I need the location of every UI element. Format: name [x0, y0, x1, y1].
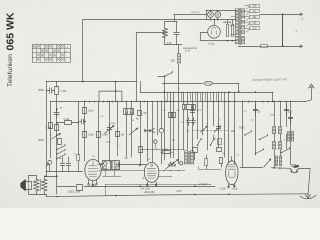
capacitor C11 block: [103, 161, 111, 170]
transformer T1 secondary: [236, 9, 239, 44]
svg-text:1M: 1M: [121, 133, 124, 136]
coil L6: [276, 156, 278, 166]
wire: [136, 32, 165, 34]
svg-text:Telefunken: Telefunken: [7, 54, 14, 87]
wire: [164, 101, 166, 160]
svg-text:W: W: [33, 47, 35, 49]
wire: [200, 40, 236, 42]
svg-text:2×AB2011: 2×AB2011: [190, 11, 201, 14]
switch S5: [255, 153, 256, 154]
wire comb: [167, 92, 169, 101]
wire: [126, 148, 128, 157]
wire: [109, 101, 111, 162]
variable capacitor CV2: [214, 126, 221, 132]
svg-text:+245 245V: +245 245V: [144, 192, 156, 194]
wire: [157, 101, 159, 126]
wire: [286, 101, 288, 126]
wire: [183, 92, 185, 104]
resistor R8: [83, 132, 87, 138]
choke L11: [178, 45, 180, 54]
jack J2: [48, 160, 52, 164]
mains arrow b: [299, 45, 303, 48]
resistor R4: [55, 125, 59, 131]
wire: [174, 15, 176, 22]
wire: [178, 92, 180, 164]
svg-text:5000: 5000: [196, 110, 202, 112]
wire: [240, 167, 263, 169]
wire: [183, 110, 185, 151]
capacitor C14: [205, 159, 208, 166]
wire: [238, 84, 240, 93]
resistor R3: [56, 82, 58, 88]
svg-text:≈ 0 250: ≈ 0 250: [218, 188, 226, 191]
wire: [122, 164, 146, 166]
jack J1: [159, 128, 163, 132]
rectifier tube V4: [208, 26, 221, 39]
resistor R1: [164, 21, 166, 28]
resistor R21: [163, 151, 171, 154]
svg-text:40mA: 40mA: [232, 188, 238, 191]
wire: [140, 82, 142, 93]
wire: [207, 92, 209, 150]
capacitor C1: [174, 21, 180, 45]
wire: [78, 101, 80, 154]
wire: [46, 194, 48, 196]
coil L5: [273, 142, 276, 150]
transformer T1 core: [239, 8, 241, 45]
wire bias: [84, 186, 215, 188]
wire: [290, 101, 292, 165]
transformer T1 primary taps: [242, 9, 245, 14]
switch S6: [281, 152, 282, 153]
capacitor C17: [216, 124, 220, 133]
svg-text:schwarz: schwarz: [199, 183, 208, 186]
svg-text:4,4≈ /350: 4,4≈ /350: [140, 187, 150, 190]
jack J4: [154, 140, 157, 143]
speaker field coil L8: [33, 179, 39, 191]
pickup jack bowtie: [144, 129, 150, 133]
trimmer arrow3: [129, 128, 138, 135]
wire: [28, 176, 30, 182]
svg-text:a. M.: a. M.: [185, 50, 191, 53]
junction circle: [180, 162, 183, 165]
resistor R15: [218, 139, 222, 145]
wire: [274, 150, 276, 168]
band switch table: [33, 45, 71, 63]
wire: [136, 33, 138, 101]
capacitor C15: [60, 157, 64, 171]
switch S3: [244, 134, 245, 135]
wire rail HT1: [46, 81, 137, 83]
wire: [242, 101, 244, 167]
choke L1: [204, 81, 213, 85]
wire: [46, 91, 48, 177]
resistor R6: [58, 139, 62, 145]
wire: [140, 101, 142, 164]
wire: [99, 170, 146, 172]
wire: [228, 92, 230, 162]
svg-text:1,25: 1,25: [167, 41, 173, 45]
wire: [165, 44, 182, 46]
wire: [268, 46, 299, 48]
potentiometer P1: [169, 162, 176, 167]
svg-text:065 WK: 065 WK: [5, 12, 17, 50]
connector arrowhead: [151, 128, 155, 133]
resistor R14: [193, 148, 198, 153]
svg-text:≈2,2μ: ≈2,2μ: [208, 42, 215, 46]
svg-text:5000: 5000: [38, 139, 44, 142]
capacitor C10: [284, 104, 289, 116]
trimmer arrow4: [264, 159, 271, 167]
tube V1 AL4: [85, 159, 101, 180]
IF transformer L2: [124, 109, 134, 115]
wire: [44, 176, 46, 179]
speaker LS: [21, 179, 26, 191]
capacitor C8: [190, 108, 195, 115]
capacitor C5: [54, 109, 59, 118]
resistor R13: [172, 113, 176, 118]
wire: [173, 92, 175, 158]
resistor R10: [116, 132, 120, 137]
svg-text:0,1M: 0,1M: [88, 110, 94, 113]
wire: [57, 186, 76, 188]
capacitor C13: [116, 162, 122, 166]
mains arrow a: [299, 13, 303, 16]
wire: [213, 135, 215, 139]
fuse F1: [261, 45, 268, 48]
resistor R7: [83, 108, 87, 114]
capacitor C7: [107, 124, 112, 133]
wire: [105, 184, 211, 186]
wire: [235, 10, 237, 20]
resistor R18: [49, 123, 53, 129]
wire: [174, 14, 206, 16]
coil L7b: [288, 132, 290, 142]
wire: [234, 92, 236, 165]
wire: [202, 92, 204, 135]
wire: [46, 171, 82, 173]
svg-text:150Ω 1,5W: 150Ω 1,5W: [68, 191, 81, 194]
resistor R20: [139, 147, 143, 153]
wire: [170, 92, 172, 158]
svg-text:k: k: [65, 60, 66, 62]
tube V3 ACH1: [226, 161, 238, 185]
tube V1 pins: [88, 184, 90, 186]
wire: [224, 92, 226, 157]
switch S1: [164, 76, 165, 77]
wire: [206, 10, 208, 20]
wire main bus: [50, 101, 305, 103]
tube V2 AF7: [144, 163, 158, 183]
wire: [255, 101, 257, 155]
output choke L9: [41, 179, 47, 191]
wire: [140, 149, 184, 151]
switch S4: [259, 139, 260, 140]
wire: [105, 169, 107, 176]
tube V3 cathode: [229, 171, 235, 178]
wire: [161, 101, 163, 128]
wire: [152, 101, 154, 162]
svg-text:−1,5V: −1,5V: [175, 190, 182, 193]
resistor R9: [97, 132, 101, 138]
IF transformer L3: [183, 105, 196, 110]
svg-text:1M: 1M: [172, 139, 175, 141]
wire: [260, 14, 300, 16]
svg-text:≈: ≈: [296, 29, 298, 33]
wire: [36, 191, 38, 194]
wire: [286, 134, 288, 149]
dial lamp E1: [208, 12, 214, 18]
svg-text:0,1M: 0,1M: [46, 126, 52, 129]
wire ground bus: [46, 194, 308, 197]
wire: [218, 92, 220, 148]
wire: [197, 92, 199, 139]
resistor R19: [217, 148, 222, 152]
svg-text:+: +: [228, 20, 230, 24]
capacitor C6: [80, 119, 86, 124]
svg-text:+: +: [223, 20, 225, 24]
tube V2 pins: [146, 184, 148, 186]
wire: [213, 83, 239, 85]
mains plug link: [282, 14, 284, 46]
arrow earth anchor: [305, 194, 310, 198]
wire: [115, 82, 117, 102]
arrow chassis up: [309, 84, 315, 88]
resistor R11: [138, 111, 142, 116]
capacitor C16: [66, 157, 70, 171]
svg-text:50: 50: [144, 111, 147, 115]
svg-text:0,1M: 0,1M: [163, 149, 168, 151]
wire: [56, 108, 58, 110]
wire bus to arrow: [305, 87, 311, 102]
wire: [117, 101, 119, 156]
wire: [299, 168, 311, 170]
trimmer capacitor C20: [187, 118, 191, 126]
switch S2: [56, 149, 57, 150]
svg-text:a-w: a-w: [65, 47, 69, 49]
resistor R12: [169, 113, 173, 118]
wire: [206, 10, 236, 12]
wire: [272, 92, 274, 101]
svg-text:5000: 5000: [239, 127, 245, 130]
capacitor C12 block: [112, 161, 120, 170]
jack J3 speaker sockets: [290, 169, 298, 173]
wire: [238, 46, 261, 48]
wire: [200, 32, 208, 34]
speaker sep: [40, 179, 42, 191]
resistor R5: [57, 122, 64, 124]
wire: [271, 167, 290, 170]
wire: [84, 101, 86, 161]
wire: [199, 169, 221, 171]
trimmer arrow: [52, 134, 61, 140]
capacitor C19 electrolytic: [77, 155, 80, 161]
wire: [164, 84, 166, 102]
wire: [46, 82, 48, 91]
wire: [126, 115, 128, 148]
wire: [274, 134, 276, 142]
wire coupling link: [99, 91, 122, 101]
resistor R17: [77, 185, 83, 191]
svg-text:0,3M: 0,3M: [88, 134, 94, 137]
wire: [98, 101, 100, 162]
capacitor C2 electrolytic: [227, 25, 229, 37]
svg-text:5000: 5000: [38, 89, 44, 92]
resistor R16: [220, 158, 223, 164]
svg-text:O O58: O O58: [88, 185, 96, 188]
wire: [308, 168, 310, 197]
svg-text:50Ω: 50Ω: [171, 60, 176, 63]
capacitor C3 electrolytic: [232, 25, 234, 37]
wire: [83, 19, 236, 21]
voltage selector taps: [245, 5, 250, 7]
wire: [231, 16, 235, 18]
capacitor C9: [253, 104, 258, 116]
svg-text:0,1M: 0,1M: [64, 118, 70, 121]
svg-text:5000: 5000: [111, 123, 117, 125]
wire: [213, 92, 215, 126]
svg-text:0,3M: 0,3M: [102, 134, 108, 137]
wire: [50, 101, 52, 157]
wire: [28, 189, 30, 194]
trimmer arrow2: [105, 126, 115, 134]
capacitor C18: [288, 113, 292, 123]
wire rail HT2: [162, 83, 203, 85]
wire: [126, 101, 128, 109]
wire: [165, 21, 177, 23]
output transformer L10: [185, 151, 188, 165]
variable capacitor CV1: [201, 126, 208, 132]
switch contact: [198, 140, 201, 146]
wire: [82, 20, 84, 82]
wire: [164, 76, 166, 83]
wire: [200, 33, 202, 41]
svg-text:0,1M: 0,1M: [61, 90, 67, 93]
wire: [192, 92, 194, 150]
grid stopper group: [98, 164, 102, 166]
wire: [274, 101, 276, 126]
wire rail HT3: [140, 92, 273, 94]
coil L4: [273, 127, 276, 135]
wire: [147, 101, 149, 161]
dial lamp E2: [215, 12, 221, 18]
tube V3 pins: [228, 186, 230, 188]
capacitor C4: [46, 88, 55, 94]
switch contact2: [211, 140, 214, 146]
mech link dashes: [193, 130, 228, 132]
